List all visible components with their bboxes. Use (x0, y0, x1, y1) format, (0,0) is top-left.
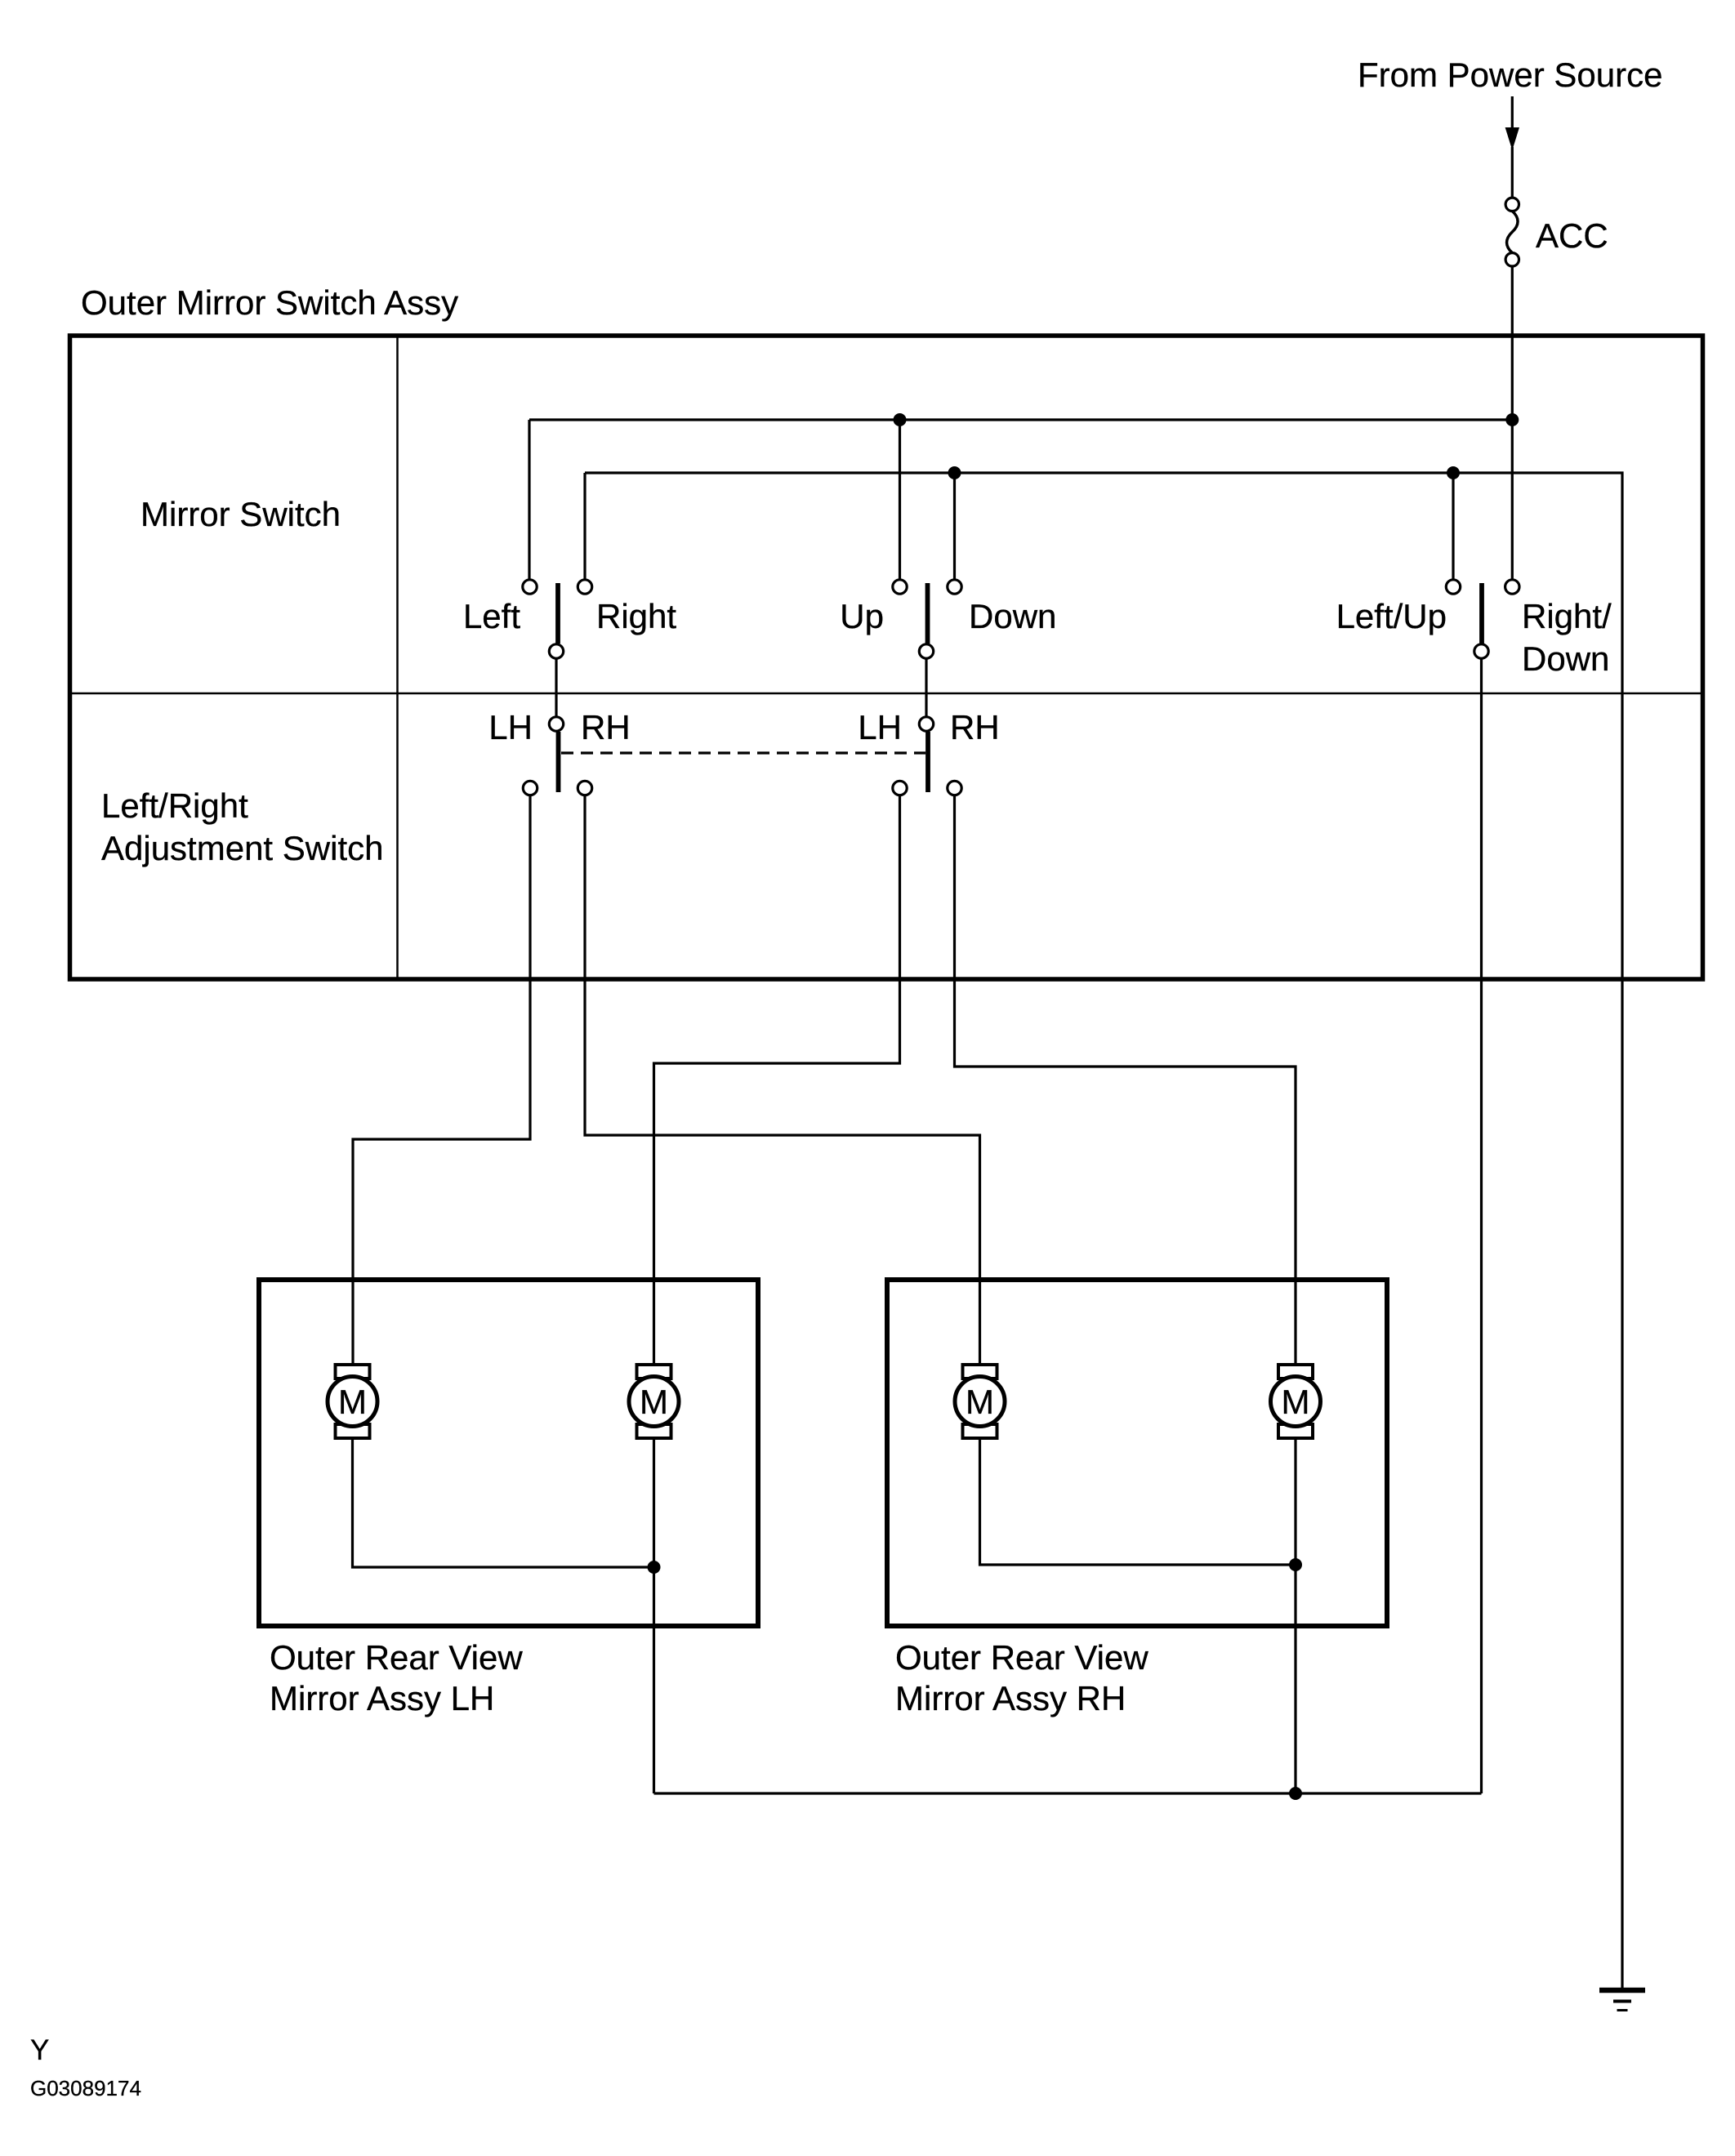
wire LH2 output to LH right motor (654, 795, 900, 1365)
terminal Down (948, 580, 961, 594)
terminal Right/Down (1505, 580, 1519, 594)
wire drop to Right terminal (583, 473, 586, 579)
node lower bus junction (1289, 1787, 1302, 1800)
svg-text:Adjustment Switch: Adjustment Switch (101, 829, 383, 867)
mechanical link dashed (561, 751, 925, 754)
node bus2 to Left/Up drop (1447, 466, 1460, 479)
adjustment output LH2 (893, 781, 907, 795)
wire bus1 from ACC (529, 418, 1512, 421)
svg-text:Right: Right (596, 597, 676, 635)
wire power feed from source with arrow (1505, 96, 1519, 198)
wire drop to Left terminal (528, 420, 530, 579)
common contact Up/Down (919, 644, 933, 658)
wire RH2 output to RH right motor (955, 795, 1296, 1365)
svg-text:M: M (966, 1383, 994, 1421)
svg-text:Mirror Switch: Mirror Switch (140, 495, 341, 533)
svg-text:RH: RH (950, 708, 1000, 746)
terminal Left (523, 580, 537, 594)
svg-text:Y: Y (30, 2034, 49, 2066)
wire common Left/Up-Right/Down to lower bus (1480, 658, 1483, 1793)
node bus1 to Up drop (894, 413, 907, 426)
wire RH1 output to RH left motor (585, 795, 980, 1365)
svg-text:Mirror Assy RH: Mirror Assy RH (895, 1679, 1126, 1717)
motor M RH right (up/down) (1271, 1365, 1321, 1438)
label Outer Rear View Mirror Assy RH (895, 1638, 1148, 1717)
box Outer Rear View Mirror Assy RH (887, 1280, 1387, 1626)
label Right/Down (1522, 597, 1612, 678)
svg-text:Left: Left (463, 597, 520, 635)
svg-text:Left/Right: Left/Right (101, 786, 248, 825)
svg-text:G03089174: G03089174 (30, 2076, 141, 2100)
node RH motors common (1289, 1558, 1302, 1571)
motor M LH left (left/right) (328, 1365, 377, 1438)
wire LH1 output to LH left motor (353, 795, 530, 1365)
wire common Left/Right to adjustment switch (555, 658, 557, 717)
common contact Left/Right (549, 644, 563, 658)
node bus2 to Down drop (948, 466, 961, 479)
svg-text:Right/: Right/ (1522, 597, 1612, 635)
adjustment input contact 2 (919, 717, 933, 731)
svg-text:Left/Up: Left/Up (1336, 597, 1447, 635)
svg-text:Outer Rear View: Outer Rear View (895, 1638, 1148, 1677)
wire LH left motor return (353, 1438, 654, 1567)
common contact Left/Up-Right/Down (1474, 644, 1488, 658)
wire RH right motor to lower bus (1294, 1438, 1296, 1793)
wire bus2 to ground rail (585, 473, 1622, 1989)
adjustment input contact 1 (549, 717, 563, 731)
svg-text:ACC: ACC (1536, 216, 1608, 255)
svg-text:LH: LH (858, 708, 902, 746)
wire drop to Up terminal (899, 420, 901, 579)
svg-text:Up: Up (840, 597, 884, 635)
adjustment output RH2 (948, 781, 961, 795)
label Outer Rear View Mirror Assy LH (270, 1638, 523, 1717)
adjustment output LH1 (523, 781, 537, 795)
terminal Up (893, 580, 907, 594)
motor M RH left (left/right) (955, 1365, 1005, 1438)
node LH motors common (648, 1561, 661, 1574)
motor M LH right (up/down) (629, 1365, 679, 1438)
wire common Up/Down to adjustment switch (925, 658, 927, 717)
fuse ACC (1505, 198, 1519, 266)
divider horizontal between switch sections (70, 693, 1703, 695)
wire drop to Down terminal (953, 473, 956, 579)
switch bar Left/Right (555, 583, 560, 644)
svg-text:LH: LH (488, 708, 533, 746)
terminal Left/Up (1446, 580, 1460, 594)
node bus1 at power line (1505, 413, 1519, 426)
svg-text:M: M (1282, 1383, 1310, 1421)
adjustment switch bar 2 (925, 732, 930, 792)
svg-text:RH: RH (581, 708, 631, 746)
wire RH left motor return (980, 1438, 1296, 1565)
svg-text:Outer Mirror Switch Assy: Outer Mirror Switch Assy (81, 283, 458, 322)
divider vertical label column (396, 336, 399, 979)
adjustment output RH1 (578, 781, 591, 795)
svg-text:Down: Down (1522, 639, 1609, 678)
wire drop to Left/Up terminal (1452, 473, 1454, 579)
label Left/Right Adjustment Switch (101, 786, 383, 867)
terminal Right (578, 580, 591, 594)
wire fuse to mirror switch bus (1511, 266, 1514, 579)
wire lower return bus (654, 1792, 1482, 1794)
svg-text:Outer Rear View: Outer Rear View (270, 1638, 523, 1677)
svg-text:From Power Source: From Power Source (1358, 56, 1662, 94)
svg-text:Mirror Assy LH: Mirror Assy LH (270, 1679, 494, 1717)
svg-text:M: M (640, 1383, 668, 1421)
switch bar Up/Down (925, 583, 930, 644)
adjustment switch bar 1 (556, 732, 561, 792)
box Outer Mirror Switch Assy (70, 336, 1703, 979)
ground (1599, 1990, 1645, 2011)
svg-text:Down: Down (969, 597, 1056, 635)
switch bar Left/Up-Right/Down (1479, 583, 1484, 644)
box Outer Rear View Mirror Assy LH (259, 1280, 758, 1626)
svg-text:M: M (338, 1383, 367, 1421)
wire LH right motor to lower bus (653, 1438, 655, 1793)
